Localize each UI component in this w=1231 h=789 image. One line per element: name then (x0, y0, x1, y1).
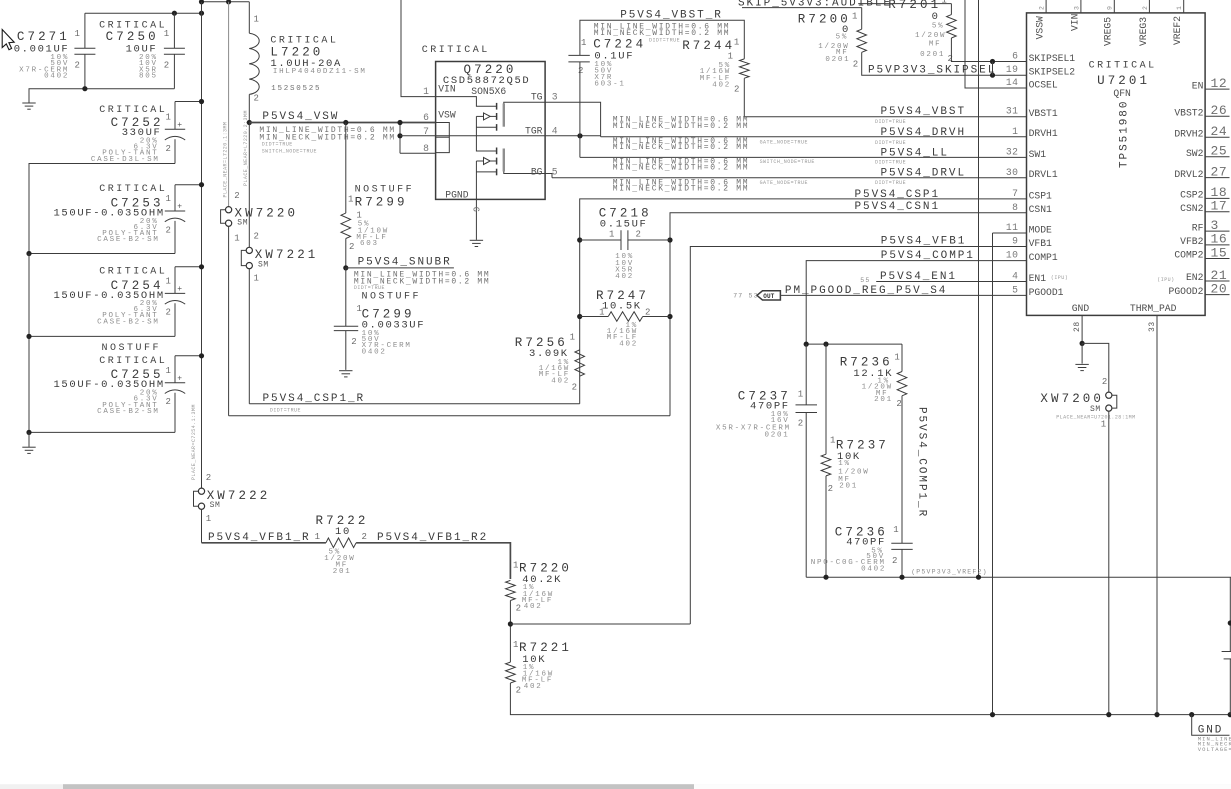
transistor upper FET arrow (490, 115, 496, 117)
wire comp ground rail VREF2 (806, 576, 1231, 578)
resistor R7247 (580, 316, 609, 318)
wire MODE net (993, 232, 1027, 234)
svg-text:P5VS4_CSN1: P5VS4_CSN1 (855, 201, 941, 213)
svg-text:C7271: C7271 (17, 30, 70, 44)
svg-text:THRM_PAD: THRM_PAD (1130, 303, 1177, 314)
wire COMP1 net (806, 261, 1026, 345)
svg-text:PLACE_NEAR=C7254.1:3MM: PLACE_NEAR=C7254.1:3MM (191, 404, 197, 480)
svg-text:SM: SM (1090, 405, 1101, 414)
svg-text:CRITICAL: CRITICAL (99, 356, 167, 367)
svg-text:31: 31 (1006, 106, 1019, 117)
svg-text:9: 9 (473, 207, 483, 212)
svg-text:2: 2 (572, 383, 577, 393)
wire C7252 bottom rail (29, 164, 175, 254)
wire C7253 top rail (175, 184, 202, 186)
svg-text:SW1: SW1 (1029, 149, 1047, 160)
svg-text:24: 24 (1211, 124, 1228, 139)
svg-text:402: 402 (615, 273, 634, 281)
svg-text:2: 2 (234, 191, 239, 201)
svg-text:5: 5 (552, 167, 558, 178)
wire OCSEL riser (965, 0, 1027, 88)
node junction CSN1 C7218 (667, 237, 672, 242)
svg-text:2: 2 (1142, 5, 1149, 10)
inductor L7220 (248, 2, 250, 33)
svg-text:SM: SM (258, 261, 269, 270)
svg-text:0402: 0402 (44, 73, 69, 81)
wire C7255 top rail (175, 355, 202, 357)
resistor R7237 (825, 344, 827, 454)
wire vref riser x=978.5 (978, 0, 980, 577)
capacitor right edge cut off (1222, 651, 1231, 653)
svg-text:2: 2 (516, 685, 521, 695)
svg-text:2: 2 (254, 232, 259, 242)
wire VSW pin bracket inside (436, 123, 450, 153)
svg-text:14: 14 (1006, 77, 1019, 88)
wire TG from gate (504, 102, 545, 103)
svg-text:+: + (177, 285, 182, 294)
node junction VSW bracket mid (397, 133, 402, 138)
wire CSN1 net (670, 213, 1027, 416)
node junction TGR boot (577, 133, 582, 138)
ground symbol U7201 GND (1081, 343, 1083, 363)
wire P5VS4_SNUBR stub (346, 267, 454, 269)
svg-text:1: 1 (893, 525, 898, 535)
svg-text:3: 3 (1211, 218, 1219, 233)
svg-text:152S0525: 152S0525 (271, 85, 321, 93)
wire top output rail horizontal (85, 12, 202, 14)
svg-text:CRITICAL: CRITICAL (99, 105, 167, 116)
pin 25 SW2 stub (1205, 156, 1229, 158)
wire C7253 bottom rail (29, 253, 175, 255)
svg-text:201: 201 (839, 483, 858, 491)
node junction comp C7237 (804, 342, 809, 347)
svg-text:P5VS4_EN1: P5VS4_EN1 (880, 271, 957, 283)
svg-text:1: 1 (798, 389, 803, 399)
pin VREG3 top stub (1148, 0, 1150, 13)
svg-text:DIDT=TRUE: DIDT=TRUE (875, 180, 906, 186)
svg-text:2: 2 (853, 59, 858, 69)
svg-text:402: 402 (524, 603, 543, 611)
svg-text:DRVH2: DRVH2 (1174, 129, 1203, 140)
svg-text:GATE_NODE=TRUE: GATE_NODE=TRUE (760, 180, 808, 186)
svg-text:1: 1 (513, 561, 518, 571)
node junction VFB tap (508, 621, 513, 626)
svg-text:PGND: PGND (445, 189, 468, 200)
svg-text:COMP2: COMP2 (1174, 250, 1203, 261)
svg-text:DIDT=TRUE: DIDT=TRUE (262, 142, 293, 148)
wire C7224 pin2 to switch node (579, 62, 581, 157)
svg-text:603-1: 603-1 (594, 81, 625, 89)
svg-text:(P5VP3V3_VREF2): (P5VP3V3_VREF2) (911, 568, 988, 575)
wire lower FET source bus to PGND (475, 161, 477, 199)
svg-text:VREF2: VREF2 (1172, 16, 1183, 45)
wire XW7220 pin1 down to sense wire (228, 226, 230, 415)
pin 27 DRVL2 stub (1205, 177, 1229, 179)
svg-text:VBST2: VBST2 (1174, 107, 1203, 118)
svg-text:4: 4 (1012, 271, 1018, 282)
svg-text:EN1: EN1 (1029, 273, 1047, 284)
svg-text:2: 2 (166, 308, 171, 318)
svg-text:NOSTUFF: NOSTUFF (362, 292, 422, 303)
svg-text:25: 25 (1211, 144, 1228, 159)
svg-text:26: 26 (1211, 103, 1228, 118)
offpage connector OUT PM_PGOOD (757, 291, 781, 300)
node junction C7254 bottom on left rail (26, 334, 31, 339)
svg-text:EN: EN (1192, 80, 1204, 91)
wire upper FET source bus (476, 116, 496, 151)
wire SKIP net to R7201 (858, 3, 951, 5)
svg-text:2: 2 (828, 484, 833, 494)
capacitor C7253 (174, 185, 176, 211)
svg-text:201: 201 (874, 396, 893, 404)
wire BG from gate (504, 172, 545, 174)
svg-text:0201: 0201 (764, 431, 789, 439)
resistor R7236 (901, 344, 903, 371)
pin VREF2 top stub (1183, 0, 1185, 13)
svg-text:VSSW: VSSW (1035, 16, 1046, 39)
capacitor C7218 (580, 239, 621, 241)
svg-text:20: 20 (1211, 281, 1228, 296)
wire VFB tap to riser (510, 623, 690, 625)
svg-text:DIDT=TRUE: DIDT=TRUE (354, 285, 385, 291)
node junction CSN1 R7247 (667, 314, 672, 319)
wire MODE to ground rail (992, 233, 994, 715)
svg-text:DIDT=TRUE: DIDT=TRUE (875, 160, 906, 166)
wire C7252 top rail (175, 101, 202, 103)
svg-text:P5VS4_VSW: P5VS4_VSW (262, 111, 339, 123)
svg-text:1: 1 (254, 274, 259, 284)
node junction SKIPSEL2 (990, 73, 995, 78)
jumper XW7220 (228, 205, 230, 207)
pin 28 GND stub (1081, 315, 1083, 343)
svg-text:CRITICAL: CRITICAL (422, 45, 490, 56)
svg-text:1: 1 (206, 514, 211, 524)
svg-text:PGOOD2: PGOOD2 (1169, 286, 1204, 297)
wire DRVL net (552, 177, 1027, 179)
svg-text:2: 2 (75, 60, 80, 70)
pin VREG5 top stub (1113, 0, 1115, 13)
svg-text:1: 1 (513, 640, 518, 650)
svg-text:(IPU): (IPU) (1051, 275, 1068, 281)
wire P5VS4_CSP1_R (249, 403, 579, 405)
pin 33 THRM_PAD stub (1156, 315, 1158, 714)
svg-text:P5VS4_VFB1: P5VS4_VFB1 (881, 236, 967, 248)
mouse cursor (2, 30, 14, 50)
svg-text:1: 1 (348, 195, 353, 205)
svg-text:TG: TG (531, 91, 543, 102)
capacitor C7254 (174, 267, 176, 294)
svg-text:7: 7 (1012, 188, 1018, 199)
svg-text:QFN: QFN (1113, 88, 1131, 99)
svg-text:4: 4 (552, 125, 558, 136)
svg-text:9: 9 (1012, 236, 1018, 247)
svg-text:DIDT=TRUE: DIDT=TRUE (875, 119, 906, 125)
wire P5VS4_VBST_R top (580, 20, 744, 59)
ground symbol under C7299 (339, 370, 352, 372)
svg-text:2: 2 (645, 308, 650, 318)
wire TGR through wire (400, 135, 601, 137)
svg-text:1: 1 (164, 29, 169, 39)
svg-text:1: 1 (570, 333, 575, 343)
wire right edge drop (1229, 577, 1231, 651)
node junction C7253 top (199, 182, 204, 187)
node junction C7253 bottom on left rail (26, 251, 31, 256)
wire top rail to L7220 pin1 (202, 1, 250, 3)
svg-text:CASE-B2-SM: CASE-B2-SM (97, 408, 160, 416)
pin VIN top stub (1080, 0, 1082, 13)
svg-text:2: 2 (166, 397, 171, 407)
node junction C7271 bottom (82, 86, 87, 91)
svg-text:2: 2 (349, 242, 354, 252)
wire PGND stem (475, 199, 477, 240)
node junction XW7200 rail (1106, 712, 1111, 717)
node junction right edge (1228, 620, 1231, 625)
scrollbar track (0, 784, 1231, 789)
svg-text:2: 2 (798, 418, 803, 428)
wire VFB1 net (690, 247, 1026, 625)
resistor R7299 (NOSTUFF) (343, 120, 348, 125)
svg-text:1: 1 (734, 37, 739, 47)
svg-text:0402: 0402 (362, 348, 387, 356)
pin 24 DRVH2 stub (1205, 136, 1229, 138)
svg-text:1: 1 (315, 532, 320, 542)
svg-text:10: 10 (335, 526, 351, 538)
transistor upper FET drain contact bar (496, 103, 498, 110)
svg-text:2: 2 (948, 54, 953, 64)
svg-text:+: + (177, 203, 182, 212)
svg-text:0: 0 (932, 11, 940, 23)
resistor R7256 (575, 350, 585, 376)
wire XW7221 pin1 down to CSP1_R wire (248, 269, 250, 404)
svg-text:P5VS4_DRVL: P5VS4_DRVL (881, 168, 967, 180)
node junction THRM rail (1154, 712, 1159, 717)
svg-text:CRITICAL: CRITICAL (99, 184, 167, 195)
svg-text:1: 1 (852, 12, 857, 22)
jumper XW7222 (198, 488, 204, 494)
wire C7255 bottom rail (29, 431, 175, 433)
transistor lower FET arrow (490, 160, 496, 162)
svg-text:U7201: U7201 (1097, 74, 1150, 88)
transistor lower FET source contact bar (496, 169, 498, 176)
svg-text:CASE-D3L-SM: CASE-D3L-SM (91, 156, 160, 164)
pin 21 EN2 stub (1205, 280, 1229, 282)
svg-text:SM: SM (237, 219, 248, 228)
svg-text:PGOOD1: PGOOD1 (1029, 287, 1064, 298)
wire P5VS4_VSW (249, 122, 435, 124)
svg-text:TPS51980: TPS51980 (1119, 100, 1131, 168)
pin 3 RF stub (1205, 230, 1229, 232)
svg-text:P5VS4_VFB1_R: P5VS4_VFB1_R (208, 532, 311, 544)
svg-text:PLACE_NEAR=L7220.1:3MM: PLACE_NEAR=L7220.1:3MM (222, 122, 228, 198)
svg-text:0201: 0201 (825, 56, 850, 64)
node junction rail right edge (1228, 712, 1231, 717)
svg-text:P5VS4_CSP1_R: P5VS4_CSP1_R (263, 393, 366, 405)
svg-text:VOLTAGE=0V: VOLTAGE=0V (1198, 746, 1231, 753)
svg-text:GND: GND (1072, 303, 1090, 314)
node junction SKIPSEL1 (990, 59, 995, 64)
svg-text:12: 12 (1211, 76, 1228, 91)
svg-text:5%: 5% (932, 23, 945, 31)
wire gray vertical place-near line (228, 2, 230, 207)
node junction C7255 bottom (26, 430, 31, 435)
svg-text:1: 1 (75, 29, 80, 39)
svg-text:1: 1 (234, 234, 239, 244)
node junction vref riser bottom (976, 575, 981, 580)
svg-text:VREG3: VREG3 (1138, 17, 1149, 46)
capacitor C7271 (84, 13, 86, 48)
svg-text:C7250: C7250 (106, 30, 159, 44)
svg-text:2: 2 (164, 60, 169, 70)
svg-text:GND: GND (1198, 724, 1224, 736)
svg-text:0.15UF: 0.15UF (600, 218, 648, 230)
node junction comp R7237 (823, 342, 828, 347)
svg-text:27: 27 (1211, 164, 1228, 179)
resistor R7244 (740, 59, 750, 78)
svg-text:1: 1 (941, 0, 946, 6)
svg-text:DRVL2: DRVL2 (1174, 169, 1203, 180)
pin 26 VBST2 stub (1205, 115, 1229, 117)
wire C7271 C7250 bottom to ground (29, 89, 174, 103)
transistor upper FET source contact bar (496, 124, 498, 131)
svg-text:DIDT=TRUE: DIDT=TRUE (270, 407, 301, 413)
svg-text:1: 1 (1012, 126, 1018, 137)
svg-text:1: 1 (166, 113, 171, 123)
pin 12 EN stub (1205, 88, 1229, 90)
capacitor C7237 (805, 344, 807, 405)
svg-text:603: 603 (360, 240, 379, 248)
wire left ground rail x=29 (28, 254, 30, 433)
transistor lower FET gate bar (503, 149, 505, 172)
svg-text:PLACE_NEAR=U7201.28:1MM: PLACE_NEAR=U7201.28:1MM (1056, 415, 1135, 421)
svg-text:OUT: OUT (763, 293, 775, 300)
svg-text:(IPU): (IPU) (1157, 277, 1174, 283)
svg-text:1: 1 (166, 276, 171, 286)
resistor R7200 (861, 8, 863, 30)
capacitor C7299 (NOSTUFF) (345, 268, 347, 326)
svg-text:NOSTUFF: NOSTUFF (355, 184, 415, 195)
node junction C7252 top (199, 99, 204, 104)
wire R7221 to ground rail (510, 683, 1231, 715)
wire C7254 top rail (175, 266, 202, 268)
transistor pair Q7220 outline box (436, 62, 545, 200)
svg-text:SKIPSEL1: SKIPSEL1 (1029, 53, 1076, 64)
wire DRVH net (601, 136, 1027, 138)
svg-text:VFB1: VFB1 (1029, 238, 1052, 249)
svg-text:2: 2 (166, 144, 171, 154)
node junction output rail top (199, 11, 204, 16)
wire P5VS4_VFB1_R2 (356, 543, 510, 579)
resistor R7201 (950, 4, 952, 15)
transistor upper FET gate bar (503, 104, 505, 127)
svg-text:EN2: EN2 (1186, 272, 1204, 283)
wire P5VS4_VFB1_R (202, 542, 326, 544)
capacitor C7224 (568, 54, 589, 56)
svg-text:1: 1 (894, 353, 899, 363)
pin VSSW top stub (1045, 0, 1047, 13)
wire GND pin to XW7200 (1082, 343, 1109, 392)
wire TG route to DRVH (545, 102, 601, 137)
svg-text:+: + (177, 121, 182, 130)
svg-text:MIN_NECK_WIDTH=0.2 MM: MIN_NECK_WIDTH=0.2 MM (613, 143, 750, 152)
svg-text:IHLP4040DZ11-SM: IHLP4040DZ11-SM (273, 68, 367, 76)
svg-text:1: 1 (728, 52, 733, 62)
node junction C7254 top (199, 264, 204, 269)
svg-text:30: 30 (1006, 167, 1019, 178)
svg-text:0402: 0402 (861, 565, 886, 573)
svg-text:PM_PGOOD_REG_P5V_S4: PM_PGOOD_REG_P5V_S4 (785, 285, 947, 297)
node junction L7220 pin2 VSW (247, 120, 252, 125)
svg-text:MODE: MODE (1029, 224, 1052, 235)
svg-text:1: 1 (581, 38, 586, 48)
node junction CSP1 R7247 (577, 314, 582, 319)
node junction at top left (199, 0, 204, 4)
svg-text:MIN_NECK_WIDTH=0.2 MM: MIN_NECK_WIDTH=0.2 MM (613, 164, 750, 173)
svg-text:+: + (177, 375, 182, 384)
svg-text:8: 8 (423, 143, 429, 154)
svg-text:CSP1: CSP1 (1029, 190, 1052, 201)
svg-text:P5VP3V3_SKIPSEL: P5VP3V3_SKIPSEL (868, 64, 996, 76)
svg-text:1: 1 (1176, 5, 1183, 10)
svg-text:2: 2 (896, 399, 901, 409)
svg-text:2: 2 (1039, 5, 1046, 10)
node junction C7236 bottom (899, 575, 904, 580)
wire lower FET source stub (476, 171, 496, 173)
wire VSW pin bracket outside (399, 123, 401, 154)
svg-text:MF: MF (929, 41, 942, 49)
node junction C7250 top (172, 11, 177, 16)
svg-text:CASE-B2-SM: CASE-B2-SM (97, 318, 160, 326)
svg-text:2: 2 (206, 473, 211, 483)
wire comp top rail (806, 343, 902, 345)
op-amp U7201 controller box (1027, 13, 1206, 316)
svg-text:2: 2 (351, 337, 356, 347)
wire VIN riser from top (401, 0, 436, 97)
pin 15 COMP2 stub (1205, 258, 1229, 260)
svg-text:SWITCH_NODE=TRUE: SWITCH_NODE=TRUE (262, 148, 317, 154)
svg-text:6: 6 (423, 112, 429, 123)
node junction MODE rail (990, 712, 995, 717)
svg-text:9: 9 (1107, 5, 1114, 10)
node junction R7299 bottom SNUBR (343, 265, 348, 270)
svg-text:TGR: TGR (525, 125, 543, 136)
svg-text:DRVL1: DRVL1 (1029, 169, 1058, 180)
svg-text:3: 3 (1073, 5, 1080, 10)
ground symbol bottom left (28, 432, 30, 447)
wire SKIP net to R7200 (742, 7, 862, 9)
svg-text:1: 1 (609, 230, 614, 240)
svg-text:VREG5: VREG5 (1103, 17, 1114, 46)
node junction VSW bracket top (397, 120, 402, 125)
svg-text:33: 33 (1148, 321, 1157, 332)
svg-text:2: 2 (892, 556, 897, 566)
node junction R7237 bottom (823, 575, 828, 580)
svg-text:P5VS4_VBST_R: P5VS4_VBST_R (620, 10, 723, 22)
wire upper FET source stub (476, 126, 496, 128)
svg-text:SWITCH_NODE=TRUE: SWITCH_NODE=TRUE (760, 159, 815, 165)
capacitor C7236 (901, 396, 903, 543)
svg-text:11: 11 (1006, 222, 1019, 233)
node junction C7255 top (199, 353, 204, 358)
svg-text:5: 5 (1012, 284, 1018, 295)
svg-text:19: 19 (1006, 64, 1019, 75)
svg-text:402: 402 (551, 377, 570, 385)
wire SKIPSEL1 net (951, 38, 1026, 62)
capacitor C7255 (NOSTUFF) (174, 356, 176, 383)
svg-text:1%: 1% (838, 460, 851, 468)
svg-text:32: 32 (1006, 146, 1019, 157)
svg-text:1: 1 (166, 194, 171, 204)
svg-text:1: 1 (254, 15, 259, 25)
